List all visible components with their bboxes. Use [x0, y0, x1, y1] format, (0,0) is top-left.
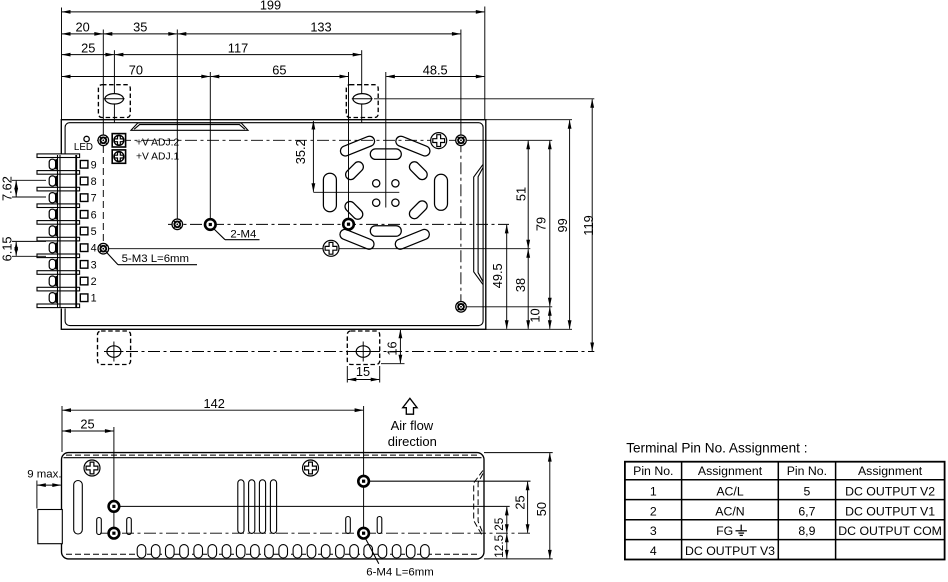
- svg-text:DC OUTPUT COM: DC OUTPUT COM: [838, 524, 942, 538]
- svg-text:38: 38: [513, 278, 528, 292]
- svg-text:25: 25: [513, 495, 528, 509]
- svg-text:8,9: 8,9: [798, 524, 815, 538]
- svg-text:7.62: 7.62: [0, 176, 14, 201]
- svg-text:25: 25: [80, 416, 94, 431]
- svg-text:117: 117: [228, 40, 248, 55]
- svg-text:DC OUTPUT V3: DC OUTPUT V3: [685, 544, 775, 558]
- svg-text:6: 6: [91, 209, 97, 221]
- svg-text:9 max.: 9 max.: [27, 469, 61, 481]
- svg-text:48.5: 48.5: [423, 62, 448, 77]
- svg-text:35.2: 35.2: [293, 139, 308, 164]
- svg-text:6.15: 6.15: [0, 236, 14, 261]
- svg-text:65: 65: [272, 62, 286, 77]
- svg-text:199: 199: [260, 0, 281, 13]
- svg-text:AC/L: AC/L: [716, 484, 743, 498]
- svg-text:49.5: 49.5: [490, 263, 505, 288]
- svg-text:5: 5: [803, 484, 810, 498]
- svg-text:Air flow: Air flow: [391, 418, 434, 433]
- svg-text:+V ADJ.2: +V ADJ.2: [136, 137, 179, 148]
- svg-text:20: 20: [75, 20, 89, 35]
- svg-text:Terminal Pin No. Assignment :: Terminal Pin No. Assignment :: [626, 441, 807, 456]
- svg-text:6-M4 L=6mm: 6-M4 L=6mm: [366, 567, 433, 579]
- svg-text:3: 3: [91, 259, 97, 271]
- svg-text:8: 8: [91, 176, 97, 188]
- svg-text:79: 79: [534, 217, 549, 231]
- svg-text:7: 7: [91, 193, 97, 205]
- svg-text:1: 1: [91, 293, 97, 305]
- svg-text:15: 15: [356, 364, 370, 379]
- svg-text:6,7: 6,7: [798, 504, 815, 518]
- svg-text:1: 1: [650, 484, 657, 498]
- svg-text:DC OUTPUT V1: DC OUTPUT V1: [845, 504, 935, 518]
- svg-text:+V ADJ.1: +V ADJ.1: [136, 152, 179, 163]
- svg-text:35: 35: [133, 20, 147, 35]
- svg-text:4: 4: [91, 243, 97, 255]
- svg-text:Assignment: Assignment: [858, 464, 923, 478]
- svg-text:12.5: 12.5: [492, 534, 506, 557]
- svg-text:50: 50: [534, 502, 549, 516]
- svg-text:FG: FG: [716, 524, 733, 538]
- svg-text:3: 3: [650, 524, 657, 538]
- svg-text:Pin No.: Pin No.: [787, 464, 827, 478]
- svg-text:Pin No.: Pin No.: [633, 464, 673, 478]
- svg-text:5-M3 L=6mm: 5-M3 L=6mm: [122, 253, 189, 265]
- svg-text:LED: LED: [74, 142, 93, 153]
- svg-text:133: 133: [310, 20, 331, 35]
- svg-text:AC/N: AC/N: [715, 504, 744, 518]
- svg-text:9: 9: [91, 159, 97, 171]
- svg-text:119: 119: [581, 215, 596, 235]
- svg-text:5: 5: [91, 226, 97, 238]
- svg-text:25: 25: [492, 517, 506, 531]
- svg-text:10: 10: [528, 308, 543, 322]
- svg-text:direction: direction: [388, 434, 437, 449]
- svg-text:70: 70: [129, 62, 143, 77]
- svg-text:Assignment: Assignment: [698, 464, 763, 478]
- svg-text:DC OUTPUT V2: DC OUTPUT V2: [845, 484, 935, 498]
- svg-text:51: 51: [513, 187, 528, 201]
- svg-text:25: 25: [81, 40, 95, 55]
- svg-text:4: 4: [650, 544, 657, 558]
- svg-text:142: 142: [204, 396, 225, 411]
- svg-text:99: 99: [555, 218, 570, 232]
- svg-text:2-M4: 2-M4: [230, 228, 256, 240]
- svg-text:2: 2: [650, 504, 657, 518]
- svg-text:16: 16: [384, 341, 399, 355]
- svg-text:2: 2: [91, 276, 97, 288]
